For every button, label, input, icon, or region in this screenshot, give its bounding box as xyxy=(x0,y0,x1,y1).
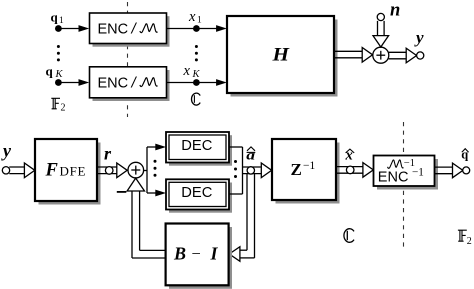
svg-text:−1: −1 xyxy=(412,167,424,179)
node q1 label xyxy=(51,10,65,26)
wire qK to ENC2 xyxy=(58,79,89,86)
decoder box DEC2 xyxy=(166,179,229,209)
wire adder2 to DEC bus xyxy=(144,147,148,193)
field label C (bottom) xyxy=(344,229,354,243)
vertical dots between x1 and xK xyxy=(195,45,198,61)
svg-text:DFE: DFE xyxy=(60,164,87,179)
node qK label xyxy=(46,64,64,81)
svg-text:y: y xyxy=(414,28,424,47)
output y label (top) xyxy=(414,28,424,47)
node x1 dot xyxy=(193,25,200,32)
svg-text:F: F xyxy=(45,161,59,181)
node y terminal circle (top) xyxy=(417,52,424,59)
equalizer box FDFE shadow xyxy=(39,143,101,205)
feedback tap down to B-I xyxy=(229,174,254,262)
demapper box ENCinv xyxy=(374,156,435,187)
svg-text:B: B xyxy=(173,244,186,264)
vector wire H to adder1 xyxy=(334,48,373,63)
vector wire Zinv to ENCinv xyxy=(336,163,373,178)
svg-text:H: H xyxy=(271,44,290,65)
svg-text:n: n xyxy=(390,1,400,21)
svg-text:2: 2 xyxy=(61,103,66,114)
svg-text:ENC: ENC xyxy=(98,75,129,91)
node xK dot xyxy=(193,79,200,86)
node x-hat circle xyxy=(346,166,354,174)
decoder box DEC2 shadow xyxy=(169,183,232,213)
wire ENC1 to x1 to H xyxy=(167,25,227,32)
svg-text:ENC: ENC xyxy=(378,170,409,186)
svg-text:−1: −1 xyxy=(303,160,315,172)
wire bus to DEC1 xyxy=(147,144,166,151)
field label F2 (bottom) xyxy=(458,230,472,247)
dashed domain boundary line (bottom, C | F2) xyxy=(403,122,405,247)
node y input circle xyxy=(2,167,9,174)
svg-text:y: y xyxy=(1,141,12,161)
node x1 label xyxy=(188,9,202,26)
node x-hat label xyxy=(345,148,355,164)
vector wire adder1 to y xyxy=(389,48,417,63)
encoder box ENC1 shadow xyxy=(93,16,170,47)
svg-text:−: − xyxy=(192,244,201,263)
delay box Zinv xyxy=(272,139,336,200)
node q-hat label xyxy=(461,147,468,161)
wire bus to DEC2 xyxy=(147,190,166,197)
channel box H shadow xyxy=(231,20,338,97)
svg-text:q: q xyxy=(46,64,54,79)
node r label xyxy=(104,144,112,164)
wire q1 to ENC1 xyxy=(58,25,89,32)
node a-hat circle xyxy=(247,167,254,174)
vector wire ENCinv to q-hat xyxy=(435,163,463,178)
vertical dots on DEC input bus xyxy=(154,160,157,177)
vertical dots on DEC output bus xyxy=(234,160,237,178)
wire ENC2 to xK to H xyxy=(167,79,227,86)
dashed domain boundary line (top, F2 | C) xyxy=(127,2,129,117)
node qK dot xyxy=(55,79,62,86)
svg-text:K: K xyxy=(192,69,201,80)
equalizer box FDFE xyxy=(35,139,97,201)
decoder box DEC1 shadow xyxy=(169,135,232,166)
encoder box ENC2 xyxy=(90,67,167,98)
svg-text:x: x xyxy=(188,9,196,25)
node xK label xyxy=(183,63,201,80)
encoder box ENC1 xyxy=(90,13,167,44)
svg-text:DEC: DEC xyxy=(181,185,212,201)
svg-text:DEC: DEC xyxy=(181,138,212,154)
node q1 dot xyxy=(55,25,62,32)
feedback box B-I xyxy=(166,224,229,286)
field label C (top) xyxy=(192,93,201,105)
wire DEC outputs to bus xyxy=(229,147,243,194)
vector wire FDFE to adder2 xyxy=(97,163,127,178)
field label F2 (top) xyxy=(51,98,65,113)
encoder box ENC2 shadow xyxy=(93,70,170,101)
svg-text:x: x xyxy=(183,63,191,79)
adder2 (+) xyxy=(128,162,144,178)
node q-hat terminal circle xyxy=(463,167,470,174)
vector wire n to adder1 xyxy=(373,21,389,47)
svg-text:1: 1 xyxy=(59,16,64,26)
node a-hat label xyxy=(246,147,255,163)
node r circle xyxy=(105,167,113,175)
input y label (bottom) xyxy=(1,141,12,161)
svg-text:r: r xyxy=(104,144,112,164)
delay box Zinv shadow xyxy=(276,143,340,204)
svg-text:q: q xyxy=(51,10,59,25)
adder1 (+) xyxy=(373,47,389,63)
svg-text:K: K xyxy=(55,69,64,80)
node n label xyxy=(390,1,400,21)
svg-text:2: 2 xyxy=(467,236,472,247)
svg-text:Z: Z xyxy=(291,160,302,179)
node n source circle xyxy=(377,13,384,20)
minus sign at adder2 feedback input xyxy=(117,191,127,193)
decoder box DEC1 xyxy=(166,132,229,163)
vector wire y to FDFE xyxy=(9,163,35,178)
svg-text:I: I xyxy=(210,244,219,264)
channel box H xyxy=(227,16,334,93)
svg-text:ENC: ENC xyxy=(98,22,129,38)
feedback box B-I shadow xyxy=(169,227,232,289)
vertical dots between q1 and qK xyxy=(57,45,60,61)
svg-text:1: 1 xyxy=(197,16,202,26)
demapper box ENCinv shadow xyxy=(377,159,438,190)
vector wire a-hat to Zinv xyxy=(243,163,272,178)
feedback wire B-I to adder2 xyxy=(127,178,166,258)
